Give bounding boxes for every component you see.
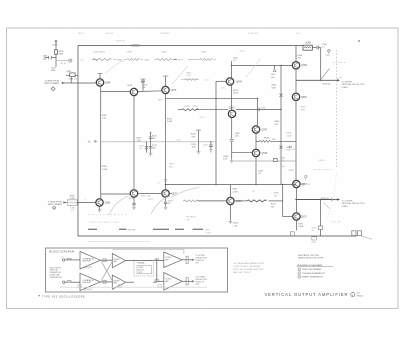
svg-text:C544: C544 bbox=[203, 145, 208, 147]
svg-text:Q563: Q563 bbox=[236, 201, 242, 203]
svg-text:C573: C573 bbox=[148, 199, 153, 201]
svg-text:VERT PREAMP: VERT PREAMP bbox=[48, 203, 63, 206]
svg-text:+12V: +12V bbox=[204, 79, 209, 81]
svg-text:16.2K: 16.2K bbox=[287, 136, 293, 138]
svg-text:REFERENCE DIAGRAMS: REFERENCE DIAGRAMS bbox=[297, 264, 323, 267]
svg-text:C570: C570 bbox=[305, 184, 310, 186]
svg-text:VERTICAL PREAMP: VERTICAL PREAMP bbox=[302, 268, 322, 271]
svg-text:TYPE 422: TYPE 422 bbox=[248, 33, 259, 35]
svg-text:162: 162 bbox=[272, 139, 275, 141]
svg-text:4.7: 4.7 bbox=[158, 183, 161, 185]
svg-text:R577: R577 bbox=[158, 100, 163, 102]
svg-text:SEE PARTS: SEE PARTS bbox=[186, 216, 197, 219]
svg-text:BLOCK DIAGRAM: BLOCK DIAGRAM bbox=[50, 250, 75, 253]
svg-text:Q573: Q573 bbox=[138, 272, 142, 274]
svg-text:4.7: 4.7 bbox=[71, 210, 74, 212]
svg-text:C553: C553 bbox=[292, 149, 296, 151]
svg-text:R599: R599 bbox=[207, 233, 212, 235]
svg-text:+100: +100 bbox=[176, 140, 180, 142]
svg-text:Q584 Q574: Q584 Q574 bbox=[84, 267, 92, 269]
svg-text:OUTPUT: OUTPUT bbox=[165, 279, 172, 281]
svg-text:C548: C548 bbox=[261, 107, 265, 109]
svg-text:LR 10: LR 10 bbox=[61, 63, 67, 65]
svg-text:PARTIAL: PARTIAL bbox=[128, 228, 136, 231]
svg-text:6.8K: 6.8K bbox=[301, 109, 306, 111]
svg-text:(DEC): (DEC) bbox=[200, 117, 205, 119]
svg-text:FIG 3-1: FIG 3-1 bbox=[106, 33, 114, 35]
svg-text:VERTICAL DEFLECTION: VERTICAL DEFLECTION bbox=[342, 83, 365, 86]
svg-text:+100V: +100V bbox=[161, 52, 168, 54]
svg-text:Q570: Q570 bbox=[301, 216, 307, 218]
svg-text:VERTICAL AMPLIFIER: VERTICAL AMPLIFIER bbox=[89, 221, 119, 224]
svg-text:SEMICONDUCTOR TYPES: SEMICONDUCTOR TYPES bbox=[298, 258, 324, 260]
svg-text:(DEC): (DEC) bbox=[221, 88, 226, 90]
svg-text:+225V: +225V bbox=[52, 45, 59, 47]
svg-text:R579: R579 bbox=[311, 242, 315, 244]
svg-text:SEE SECTION 2: SEE SECTION 2 bbox=[233, 272, 252, 274]
svg-text:15.0K: 15.0K bbox=[233, 93, 239, 95]
svg-text:+100V: +100V bbox=[305, 42, 312, 44]
svg-text:TERMINATION: TERMINATION bbox=[50, 276, 63, 279]
svg-text:+225V: +225V bbox=[239, 50, 246, 52]
svg-text:Q583 Q573: Q583 Q573 bbox=[84, 289, 92, 291]
svg-text:DRIVER: DRIVER bbox=[114, 280, 121, 282]
svg-text:RM422: RM422 bbox=[357, 295, 364, 297]
svg-text:Q544: Q544 bbox=[236, 82, 242, 84]
svg-text:6.8K: 6.8K bbox=[272, 87, 277, 89]
svg-text:SCHEM 4: SCHEM 4 bbox=[160, 33, 171, 35]
svg-text:56: 56 bbox=[327, 198, 329, 200]
svg-text:3: 3 bbox=[299, 277, 300, 279]
svg-text:4.99K: 4.99K bbox=[70, 198, 76, 200]
svg-text:SEE PARTS LIST FOR: SEE PARTS LIST FOR bbox=[298, 254, 320, 257]
svg-text:Q547: Q547 bbox=[261, 130, 267, 132]
svg-text:Q583: Q583 bbox=[105, 203, 111, 205]
svg-text:VOLTAGE AND WAVEFORM: VOLTAGE AND WAVEFORM bbox=[233, 262, 264, 265]
svg-text:R557: R557 bbox=[326, 55, 331, 57]
svg-text:1: 1 bbox=[299, 269, 300, 271]
svg-text:Q543: Q543 bbox=[229, 108, 235, 110]
svg-text:Q548: Q548 bbox=[261, 153, 267, 155]
svg-text:C564: C564 bbox=[281, 166, 286, 168]
svg-text:DRIVER: DRIVER bbox=[114, 259, 121, 261]
svg-text:VERTICAL OUTPUT AMPLIFIER: VERTICAL OUTPUT AMPLIFIER bbox=[265, 292, 349, 297]
svg-text:TRIGGER GENERATOR: TRIGGER GENERATOR bbox=[302, 272, 325, 275]
svg-text:R558 56: R558 56 bbox=[323, 83, 331, 85]
svg-text:6.2K: 6.2K bbox=[223, 159, 228, 161]
svg-text:CONDITIONS OBTAINED: CONDITIONS OBTAINED bbox=[233, 265, 261, 268]
svg-text:R575: R575 bbox=[141, 196, 146, 198]
svg-text:VERTICAL DEFLECTION: VERTICAL DEFLECTION bbox=[342, 202, 365, 205]
svg-text:.01: .01 bbox=[84, 200, 86, 202]
svg-text:.01: .01 bbox=[311, 230, 314, 232]
svg-text:SWEEP GENERATOR: SWEEP GENERATOR bbox=[302, 276, 323, 279]
svg-text:DELAY LINE: DELAY LINE bbox=[331, 220, 342, 223]
svg-text:1.96K: 1.96K bbox=[298, 226, 304, 228]
svg-text:330K: 330K bbox=[59, 53, 64, 55]
svg-text:Q576: Q576 bbox=[171, 90, 177, 92]
svg-text:+225V: +225V bbox=[126, 52, 133, 54]
svg-text:TYPE 422 OSCILLOSCOPE: TYPE 422 OSCILLOSCOPE bbox=[42, 296, 85, 299]
svg-text:1.5K: 1.5K bbox=[102, 118, 107, 120]
svg-text:1.24K: 1.24K bbox=[102, 169, 108, 171]
svg-text:Q554: Q554 bbox=[301, 65, 307, 67]
svg-text:THERMAL: THERMAL bbox=[137, 261, 145, 264]
svg-text:WITH NO SIGNAL APPLIED: WITH NO SIGNAL APPLIED bbox=[233, 268, 264, 271]
svg-text:Q584: Q584 bbox=[105, 83, 111, 85]
svg-text:2: 2 bbox=[299, 273, 300, 275]
svg-text:NOTE 21: NOTE 21 bbox=[116, 41, 126, 43]
svg-text:2.49K: 2.49K bbox=[167, 121, 173, 123]
svg-text:OUTPUT: OUTPUT bbox=[165, 257, 172, 259]
svg-text:R568: R568 bbox=[321, 198, 326, 200]
svg-text:8.2K: 8.2K bbox=[287, 150, 292, 152]
svg-text:PLATE: PLATE bbox=[342, 86, 349, 89]
svg-text:12.1K: 12.1K bbox=[193, 106, 199, 108]
svg-text:2.49K: 2.49K bbox=[233, 192, 239, 194]
svg-text:R564: R564 bbox=[281, 157, 286, 159]
svg-text:Q559: Q559 bbox=[301, 97, 307, 99]
svg-text:4-22: 4-22 bbox=[296, 33, 301, 35]
svg-text:470: 470 bbox=[281, 160, 284, 162]
svg-text:PLATE: PLATE bbox=[342, 205, 349, 208]
svg-text:9.1K: 9.1K bbox=[187, 75, 192, 77]
svg-text:SEC 2: SEC 2 bbox=[78, 33, 85, 35]
svg-text:+10: +10 bbox=[80, 60, 83, 62]
svg-text:VERT PREAMP: VERT PREAMP bbox=[45, 82, 60, 85]
svg-text:1.5K: 1.5K bbox=[233, 225, 238, 227]
svg-text:1.5K: 1.5K bbox=[145, 60, 150, 62]
svg-text:2: 2 bbox=[62, 257, 63, 259]
svg-text:DELAY: DELAY bbox=[319, 159, 326, 162]
svg-text:+225V (DEC): +225V (DEC) bbox=[93, 52, 106, 54]
